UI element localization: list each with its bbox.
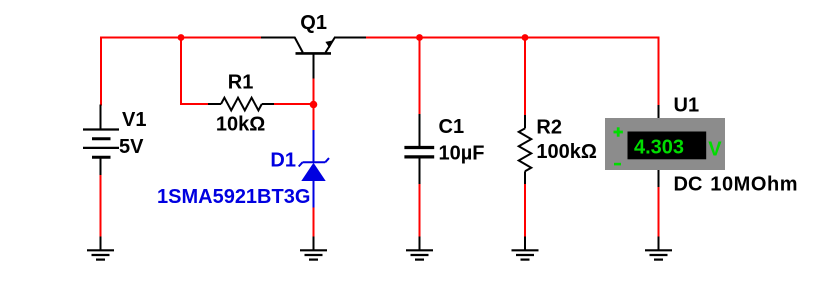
wire top rail left (V1 to Q1 collector) xyxy=(100,37,261,39)
battery V1 xyxy=(83,105,119,176)
ground (R2) xyxy=(512,237,539,260)
wire U1 bottom to ground xyxy=(658,186,660,237)
svg-text:10MOhm: 10MOhm xyxy=(710,174,798,196)
svg-text:1SMA5921BT3G: 1SMA5921BT3G xyxy=(157,186,310,208)
svg-text:R1: R1 xyxy=(228,71,254,93)
svg-text:5V: 5V xyxy=(119,136,144,158)
wire D1 anode to ground xyxy=(313,207,315,238)
wire R1 row right xyxy=(274,103,314,105)
wire top rail right (Q1 emitter to U1) xyxy=(366,37,659,39)
ground (V1) xyxy=(87,237,114,260)
svg-text:D1: D1 xyxy=(270,150,296,172)
svg-text:U1: U1 xyxy=(674,95,700,117)
svg-text:10µF: 10µF xyxy=(439,143,485,165)
transistor Q1 xyxy=(261,37,366,79)
zener diode D1 xyxy=(299,130,329,208)
junction node at R2 branch xyxy=(522,34,529,41)
ground (U1) xyxy=(645,237,672,260)
svg-text:4.303: 4.303 xyxy=(634,136,684,158)
capacitor C1 xyxy=(404,114,434,184)
junction node at Q1 base / R1 / D1 xyxy=(310,101,318,109)
junction node at R1 branch xyxy=(178,34,185,41)
ground (D1) xyxy=(300,237,327,260)
wire Q1 base to D1 xyxy=(313,78,315,131)
svg-text:Q1: Q1 xyxy=(300,12,327,34)
wire R2 branch top xyxy=(524,38,526,117)
resistor R2 xyxy=(519,115,532,184)
svg-text:V: V xyxy=(708,139,722,161)
wire U1 branch top xyxy=(658,37,660,107)
svg-text:V1: V1 xyxy=(122,109,146,131)
wire V1 bottom to ground xyxy=(100,174,102,238)
svg-text:10kΩ: 10kΩ xyxy=(216,114,265,136)
wire R1 row left xyxy=(180,103,208,105)
wire C1 branch top xyxy=(419,38,421,116)
svg-text:C1: C1 xyxy=(439,116,465,138)
resistor R1 xyxy=(208,98,274,111)
wire R2 bottom to ground xyxy=(524,183,526,238)
svg-text:DC: DC xyxy=(674,174,703,196)
wire C1 bottom to ground xyxy=(419,184,421,238)
multimeter U1 xyxy=(605,105,725,187)
svg-text:100kΩ: 100kΩ xyxy=(536,141,597,163)
junction node at C1 branch xyxy=(416,34,423,41)
svg-text:R2: R2 xyxy=(536,117,562,139)
ground (C1) xyxy=(406,237,433,260)
wire left branch vertical to V1 xyxy=(100,37,102,106)
wire R1 branch vertical xyxy=(180,38,182,106)
